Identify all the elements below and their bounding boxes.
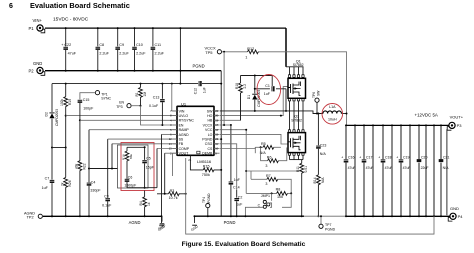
connector P3 VOUT+ bbox=[449, 122, 455, 128]
svg-text:GND: GND bbox=[33, 61, 42, 66]
svg-text:R19: R19 bbox=[68, 99, 72, 105]
wire output column bbox=[433, 125, 435, 216]
comp highlight box red bbox=[121, 143, 154, 191]
svg-text:R6: R6 bbox=[267, 155, 272, 159]
svg-text:C10: C10 bbox=[136, 43, 143, 47]
svg-text:47uF: 47uF bbox=[366, 166, 374, 170]
wire VIN top rail bbox=[45, 27, 286, 29]
svg-text:TP7: TP7 bbox=[325, 223, 331, 227]
svg-text:P4: P4 bbox=[458, 214, 464, 219]
wire output connector return bbox=[446, 129, 448, 215]
wire AGND pin net bbox=[162, 133, 178, 135]
svg-text:C18: C18 bbox=[385, 156, 391, 160]
svg-text:750k: 750k bbox=[202, 173, 210, 177]
svg-text:C9: C9 bbox=[119, 43, 124, 47]
wire output column bbox=[372, 125, 374, 216]
resistor R14 snubber bbox=[317, 175, 321, 185]
svg-text:+ C22: + C22 bbox=[61, 43, 71, 47]
svg-text:1k: 1k bbox=[147, 202, 151, 206]
resistor R18 2.2 bbox=[240, 76, 242, 121]
test point TP4 PGND bbox=[206, 204, 210, 208]
svg-text:Figure 15. Evaluation Board Sc: Figure 15. Evaluation Board Schematic bbox=[182, 241, 306, 248]
wire FB tap bbox=[89, 168, 118, 170]
svg-text:R16: R16 bbox=[122, 154, 126, 160]
resistor R6 bbox=[268, 159, 279, 163]
svg-text:TP4: TP4 bbox=[202, 197, 206, 203]
wire VOUT rail bbox=[347, 124, 449, 126]
diode D1 bbox=[254, 76, 256, 111]
svg-text:R1: R1 bbox=[135, 92, 139, 96]
capacitor C8 bbox=[97, 28, 99, 71]
svg-text:15pF: 15pF bbox=[146, 165, 154, 169]
capacitor C22 bbox=[65, 28, 67, 71]
svg-text:JMP1: JMP1 bbox=[261, 194, 270, 198]
svg-text:1uF: 1uF bbox=[236, 203, 243, 207]
svg-text:N/A: N/A bbox=[443, 166, 450, 170]
svg-text:AGND: AGND bbox=[179, 133, 190, 137]
svg-text:R15: R15 bbox=[203, 164, 210, 168]
svg-text:1uF: 1uF bbox=[42, 186, 49, 190]
svg-text:C21: C21 bbox=[443, 156, 449, 160]
svg-text:10uH: 10uH bbox=[328, 118, 337, 122]
svg-text:49k: 49k bbox=[75, 163, 79, 169]
svg-text:PGND: PGND bbox=[202, 138, 213, 142]
wire SS bbox=[108, 138, 177, 140]
wire input GND rail bbox=[45, 70, 221, 72]
svg-text:EN: EN bbox=[179, 123, 184, 127]
svg-text:C17: C17 bbox=[366, 156, 372, 160]
svg-text:2.2uF: 2.2uF bbox=[119, 52, 129, 56]
svg-text:RAMP: RAMP bbox=[179, 128, 190, 132]
capacitor C9 bbox=[117, 28, 119, 71]
svg-text:FB: FB bbox=[179, 142, 184, 146]
svg-text:R14: R14 bbox=[313, 177, 317, 183]
capacitor C16 bbox=[345, 125, 347, 216]
svg-text:R3: R3 bbox=[170, 189, 175, 193]
svg-text:1M: 1M bbox=[143, 92, 147, 97]
wire HB bbox=[220, 93, 241, 120]
svg-text:1: 1 bbox=[245, 56, 247, 60]
test point TP2 AGND bbox=[38, 214, 42, 218]
svg-text:6: 6 bbox=[9, 3, 13, 10]
svg-text:PGND: PGND bbox=[325, 227, 336, 231]
svg-text:+: + bbox=[396, 156, 398, 160]
svg-text:2.2uF: 2.2uF bbox=[136, 52, 146, 56]
wire COMP bbox=[157, 148, 177, 150]
wire VCCX to pin bbox=[223, 52, 225, 125]
svg-text:10.7k: 10.7k bbox=[169, 196, 178, 200]
svg-text:PGND: PGND bbox=[207, 193, 211, 203]
svg-text:GND: GND bbox=[450, 206, 459, 211]
wire output column bbox=[354, 125, 356, 216]
connector P2 GND bbox=[37, 67, 43, 73]
svg-text:0.1uF: 0.1uF bbox=[102, 204, 112, 208]
svg-text:+: + bbox=[359, 156, 361, 160]
capacitor C13 bbox=[161, 84, 163, 125]
wire output column bbox=[391, 125, 393, 216]
resistor R16 bbox=[126, 147, 128, 178]
svg-text:C6: C6 bbox=[128, 176, 133, 180]
capacitor C17 bbox=[363, 125, 365, 216]
svg-text:C19: C19 bbox=[403, 156, 409, 160]
highlight circle red L1A bbox=[322, 104, 343, 125]
wire comp top bbox=[127, 146, 145, 148]
wire SW pin bbox=[220, 111, 323, 114]
svg-text:2.2uF: 2.2uF bbox=[99, 52, 109, 56]
resistor R3 10.7k bbox=[157, 193, 186, 195]
svg-text:47uF: 47uF bbox=[348, 166, 356, 170]
test point TP7 PGND bbox=[320, 216, 322, 224]
svg-text:102k: 102k bbox=[60, 98, 64, 106]
capacitor C12 bbox=[181, 83, 221, 85]
wire VIN drop to Q1 bbox=[285, 28, 287, 67]
test point TP6 SW bbox=[315, 98, 319, 102]
svg-text:1500pF: 1500pF bbox=[124, 184, 136, 188]
svg-text:0.1uF: 0.1uF bbox=[149, 104, 159, 108]
svg-text:COMP: COMP bbox=[179, 147, 190, 151]
svg-text:100pF: 100pF bbox=[83, 107, 94, 111]
wire output column bbox=[409, 125, 411, 216]
connector P1 VIN+ bbox=[37, 25, 43, 31]
capacitor C10 bbox=[134, 28, 136, 71]
svg-text:CS: CS bbox=[208, 147, 214, 151]
wire VCC bbox=[220, 130, 246, 194]
svg-text:3: 3 bbox=[265, 164, 267, 168]
svg-text:R26: R26 bbox=[68, 180, 72, 186]
capacitor C6 bbox=[126, 178, 128, 188]
svg-text:R5: R5 bbox=[261, 142, 266, 146]
ground GND symbol PGND bbox=[194, 216, 196, 223]
svg-text:47uF: 47uF bbox=[403, 166, 411, 170]
svg-text:C3: C3 bbox=[104, 194, 109, 198]
svg-text:P2: P2 bbox=[29, 69, 35, 74]
wire EN bbox=[141, 106, 178, 125]
svg-text:RT/SYNC: RT/SYNC bbox=[179, 119, 195, 123]
svg-text:C4: C4 bbox=[91, 180, 96, 184]
wire VCCX bbox=[222, 51, 248, 53]
svg-text:TP6: TP6 bbox=[312, 92, 316, 98]
wire HO bbox=[220, 87, 288, 116]
svg-text:0.01: 0.01 bbox=[304, 166, 308, 173]
svg-text:N/A: N/A bbox=[320, 152, 327, 156]
ground GND symbol AGND bbox=[161, 216, 163, 221]
svg-text:D1: D1 bbox=[247, 95, 251, 99]
svg-text:UVLO: UVLO bbox=[179, 114, 189, 118]
capacitor C11 bbox=[152, 28, 154, 71]
wire output column bbox=[425, 125, 427, 216]
svg-text:TP5: TP5 bbox=[205, 50, 213, 55]
capacitor C2 bbox=[220, 144, 237, 190]
highlight ellipse red C1/D1 bbox=[257, 75, 281, 105]
svg-text:47uF: 47uF bbox=[385, 166, 393, 170]
svg-text:SW: SW bbox=[207, 109, 213, 113]
svg-text:C13: C13 bbox=[153, 96, 160, 100]
svg-text:AGND: AGND bbox=[129, 220, 141, 225]
wire RAMP bbox=[89, 129, 177, 131]
svg-text:DEMB: DEMB bbox=[202, 152, 213, 156]
svg-text:HB: HB bbox=[208, 119, 214, 123]
svg-text:SS: SS bbox=[179, 138, 184, 142]
resistor R15 750k bbox=[190, 156, 221, 170]
svg-text:VOUT+: VOUT+ bbox=[450, 114, 464, 119]
svg-text:LM5116: LM5116 bbox=[197, 159, 212, 164]
wire PGND rail bbox=[194, 215, 304, 217]
svg-text:2k: 2k bbox=[60, 182, 64, 186]
svg-text:P3: P3 bbox=[457, 123, 463, 128]
capacitor C15 bbox=[80, 93, 96, 100]
svg-text:HO: HO bbox=[207, 114, 213, 118]
svg-text:C15: C15 bbox=[83, 98, 90, 102]
wire VOUT pin stub down bbox=[172, 153, 174, 176]
svg-text:1uF: 1uF bbox=[203, 87, 207, 93]
resistor R8 bbox=[246, 192, 276, 194]
svg-text:R12: R12 bbox=[247, 47, 254, 51]
wire CS bbox=[220, 147, 255, 148]
svg-text:CSG: CSG bbox=[205, 142, 213, 146]
wire RT/SYNC bbox=[80, 119, 177, 121]
svg-text:VCCX: VCCX bbox=[203, 123, 213, 127]
svg-text:VCC: VCC bbox=[205, 128, 213, 132]
wire VOUT sense return bbox=[186, 158, 434, 234]
svg-text:CMPD2003: CMPD2003 bbox=[55, 109, 59, 126]
svg-text:N/A: N/A bbox=[321, 177, 325, 183]
svg-text:C5: C5 bbox=[146, 156, 151, 160]
svg-text:SI7852: SI7852 bbox=[291, 118, 302, 122]
svg-text:R8: R8 bbox=[276, 188, 281, 192]
svg-text:+: + bbox=[341, 156, 343, 160]
test point TP1 SYNC bbox=[95, 91, 99, 95]
wire comp bottom bbox=[127, 187, 157, 189]
resistor R4 bbox=[144, 191, 146, 217]
resistor R7 bbox=[251, 178, 267, 180]
capacitor C3 bbox=[107, 139, 109, 216]
svg-text:Evaluation Board Schematic: Evaluation Board Schematic bbox=[30, 1, 130, 10]
svg-text:15VDC - 80VDC: 15VDC - 80VDC bbox=[53, 16, 89, 22]
svg-text:C16: C16 bbox=[348, 156, 354, 160]
U1 pins and labels bbox=[173, 110, 178, 112]
capacitor C21 bbox=[440, 125, 442, 216]
svg-text:U1: U1 bbox=[181, 101, 187, 106]
svg-text:VOUT: VOUT bbox=[179, 152, 190, 156]
capacitor C20 bbox=[418, 125, 420, 216]
svg-text:10k: 10k bbox=[277, 195, 283, 199]
svg-text:47uF: 47uF bbox=[68, 52, 77, 56]
svg-text:C2: C2 bbox=[238, 195, 243, 199]
svg-text:R11: R11 bbox=[296, 166, 300, 172]
svg-text:TP2: TP2 bbox=[27, 216, 34, 220]
capacitor C7 bbox=[51, 148, 53, 217]
capacitor C4 bbox=[88, 130, 90, 217]
diode D2 bbox=[51, 84, 53, 148]
wire LO bbox=[220, 134, 288, 144]
resistor R19 102k bbox=[65, 84, 67, 148]
connector P4 GND bbox=[450, 213, 456, 219]
svg-text:+: + bbox=[378, 156, 380, 160]
test point TP3 EN bbox=[127, 104, 131, 108]
svg-text:2.2uF: 2.2uF bbox=[155, 52, 165, 56]
svg-text:R22: R22 bbox=[82, 163, 86, 169]
svg-text:PGND: PGND bbox=[224, 220, 236, 225]
svg-text:C11: C11 bbox=[155, 43, 162, 47]
wire VIN sense rail bbox=[52, 83, 181, 85]
svg-text:C23: C23 bbox=[320, 144, 327, 148]
op-amp U1 LM5116 box bbox=[177, 106, 214, 155]
svg-text:+12VDC 5A: +12VDC 5A bbox=[415, 112, 438, 117]
U1 DEMB marker bbox=[197, 151, 200, 154]
wire VIN pin feed bbox=[172, 84, 177, 111]
resistor R12 bbox=[248, 50, 259, 54]
resistor R1 1M bbox=[140, 84, 142, 106]
capacitor C14 bbox=[230, 125, 232, 216]
wire junction bbox=[52, 147, 66, 149]
svg-text:D2: D2 bbox=[45, 112, 49, 116]
wire PGND pin bbox=[220, 138, 221, 140]
wire CS sense line bbox=[246, 170, 302, 172]
svg-text:TP3: TP3 bbox=[116, 105, 122, 109]
wire PGND vertical bbox=[220, 71, 222, 217]
capacitor C23 snubber bbox=[317, 114, 319, 175]
resistor R26 2k bbox=[65, 148, 67, 217]
svg-text:330pF: 330pF bbox=[90, 188, 101, 192]
wire FB bbox=[112, 143, 177, 145]
svg-text:VIN+: VIN+ bbox=[33, 18, 43, 23]
svg-text:R7: R7 bbox=[266, 174, 271, 178]
capacitor C18 bbox=[382, 125, 384, 216]
svg-text:SYNC: SYNC bbox=[101, 96, 111, 100]
svg-text:SW: SW bbox=[316, 90, 320, 96]
svg-text:C20: C20 bbox=[421, 156, 427, 160]
resistor R11 0.01 bbox=[301, 160, 303, 217]
resistor R5 bbox=[255, 146, 263, 148]
wire VOUT pin bbox=[165, 152, 177, 154]
capacitor C1 bbox=[255, 89, 286, 111]
svg-text:C12: C12 bbox=[194, 88, 198, 94]
svg-text:1uF: 1uF bbox=[264, 92, 271, 96]
svg-text:P1: P1 bbox=[29, 26, 35, 31]
svg-text:C7: C7 bbox=[45, 177, 50, 181]
resistor R22 49k bbox=[79, 120, 81, 216]
svg-text:22uF: 22uF bbox=[421, 166, 429, 170]
svg-text:VIN: VIN bbox=[179, 109, 185, 113]
svg-text:86k: 86k bbox=[129, 154, 133, 159]
svg-text:C1: C1 bbox=[265, 84, 270, 88]
svg-text:R4: R4 bbox=[139, 201, 143, 205]
capacitor C5 bbox=[144, 147, 146, 187]
svg-text:C8: C8 bbox=[99, 43, 104, 47]
svg-text:PGND: PGND bbox=[193, 64, 205, 69]
wire UVLO bbox=[66, 115, 177, 117]
capacitor C19 bbox=[400, 125, 402, 216]
wire VOUT bottom rail bbox=[346, 215, 450, 217]
comp network box bbox=[118, 145, 149, 188]
svg-text:3: 3 bbox=[265, 182, 267, 186]
wire bootstrap top bbox=[241, 75, 273, 77]
svg-text:LO: LO bbox=[208, 133, 213, 137]
wire AGND rail bbox=[43, 215, 162, 217]
svg-text:2.2: 2.2 bbox=[243, 84, 247, 89]
test point TP5 VCCX bbox=[217, 50, 221, 54]
svg-text:R18: R18 bbox=[235, 83, 239, 89]
svg-text:L1A: L1A bbox=[329, 105, 336, 109]
wire column to VIN net bbox=[179, 28, 181, 84]
